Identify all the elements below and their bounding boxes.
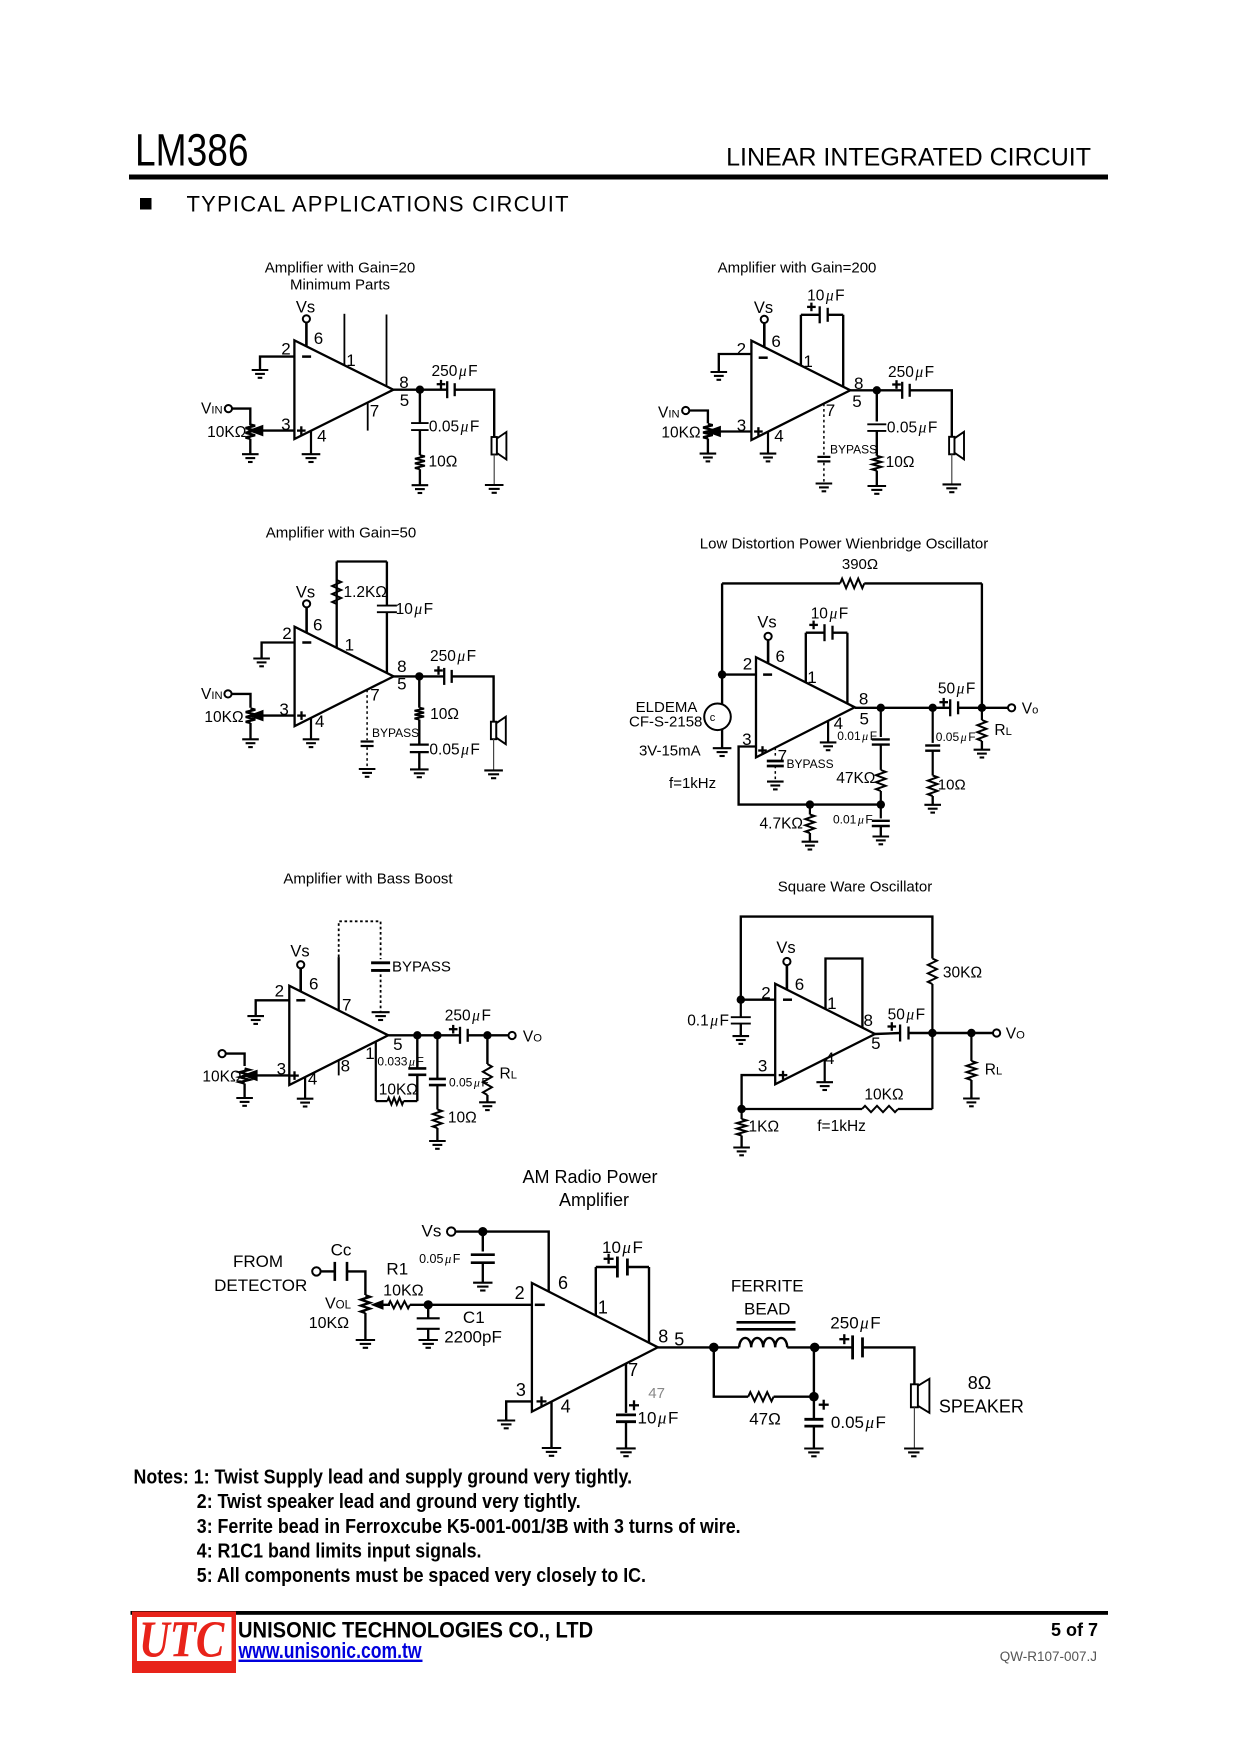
svg-text:Amplifier with Gain=50: Amplifier with Gain=50 <box>266 525 416 542</box>
op-amp U4 <box>756 657 855 757</box>
wire 0.01uF lower to ground <box>880 826 882 837</box>
svg-text:4: 4 <box>561 1397 571 1417</box>
svg-text:7: 7 <box>342 996 351 1015</box>
ground under 0.05uF <box>473 1282 492 1284</box>
svg-text:4: 4 <box>774 427 783 446</box>
capacitor 10uF gain <box>823 624 825 641</box>
wire input to potentiometer <box>226 1054 245 1066</box>
terminal Vs <box>765 633 772 640</box>
pin 1 to pin 8 wire loop <box>826 959 863 1028</box>
potentiometer 10K - zigzag <box>246 425 256 439</box>
op-amp U7 <box>532 1283 658 1412</box>
wire pin 2 to ground <box>262 643 295 659</box>
svg-text:3V-15mA: 3V-15mA <box>639 743 701 760</box>
capacitor 10uF gain <box>616 1257 619 1278</box>
svg-text:10KΩ: 10KΩ <box>207 424 246 441</box>
wire output pin 5 <box>393 389 447 391</box>
ferrite bead core bars <box>737 1321 796 1324</box>
capacitor 0.033uF <box>408 1067 426 1070</box>
ground under 10 ohm <box>412 484 429 486</box>
svg-text:RL: RL <box>994 722 1011 739</box>
pin 4 stub and ground <box>824 1059 826 1082</box>
capacitor 50uF plus sign <box>888 1025 897 1027</box>
wire arrow to R1 <box>381 1304 390 1306</box>
wire cap to resistor <box>419 430 421 455</box>
U2 plus input symbol <box>754 430 763 432</box>
svg-text:C1: C1 <box>463 1308 485 1327</box>
svg-text:1: 1 <box>345 636 354 655</box>
wire pin 8 down from gain cap <box>846 633 848 704</box>
wire 10 ohm to ground <box>436 1128 438 1141</box>
svg-text:250μF: 250μF <box>888 364 934 381</box>
wire output pin 5 <box>658 1346 739 1348</box>
wire Vs to pin 6 <box>763 323 766 347</box>
svg-text:2: 2 <box>737 340 746 359</box>
wire output pin 5 <box>875 1033 900 1034</box>
wire node A down to 0.01uF <box>880 708 882 737</box>
terminal VIN <box>224 690 231 697</box>
pin 7 stub <box>367 403 369 431</box>
wire pin 1 up to feedback network <box>336 580 338 648</box>
dotted bypass loop <box>339 921 381 959</box>
U6 plus input symbol <box>779 1074 788 1076</box>
ground under 10 ohm <box>924 804 941 806</box>
terminal VIN <box>682 407 689 414</box>
svg-text:10KΩ: 10KΩ <box>661 425 700 442</box>
U7 minus input symbol <box>535 1304 545 1307</box>
svg-text:5: 5 <box>871 1034 880 1053</box>
wire 50uF to Vo <box>909 1032 994 1034</box>
svg-text:10Ω: 10Ω <box>938 777 966 794</box>
svg-text:8: 8 <box>341 1057 350 1076</box>
svg-text:QW-R107-007.J: QW-R107-007.J <box>1000 1649 1097 1664</box>
capacitor 10uF feedback <box>377 605 397 607</box>
speaker SP3 <box>491 722 496 740</box>
capacitor 250uF plus sign <box>434 669 443 671</box>
wire 250uF to speaker <box>863 1347 915 1384</box>
junction output node <box>415 672 423 680</box>
svg-text:6: 6 <box>313 616 322 635</box>
svg-text:VOL: VOL <box>325 1296 352 1313</box>
wire pin 3 to bottom junction <box>742 1075 776 1109</box>
op-amp U2 <box>751 341 850 440</box>
svg-text:4: 4 <box>825 1049 834 1068</box>
ground under RL <box>479 1101 496 1103</box>
svg-text:Amplifier with Gain=20: Amplifier with Gain=20 <box>265 260 415 277</box>
input terminal <box>312 1267 320 1275</box>
junction at feedback return <box>978 704 986 712</box>
ground at pin 2 <box>252 369 269 371</box>
pin 4 stub and ground <box>310 718 312 739</box>
wire down to 0.05uF <box>436 1035 438 1078</box>
capacitor 10uF pin 7 <box>616 1414 636 1417</box>
UTC logo box <box>132 1612 236 1674</box>
header rule <box>129 175 1108 180</box>
svg-text:10Ω: 10Ω <box>430 706 459 723</box>
ground under 1K <box>733 1146 750 1148</box>
ground under 4.7K <box>802 841 819 843</box>
resistor 10 ohm <box>872 456 881 471</box>
svg-text:10KΩ: 10KΩ <box>204 709 243 726</box>
potentiometer VOL 10K <box>361 1295 370 1313</box>
junction output node <box>873 386 881 394</box>
wire pin 2 to ground <box>256 1000 290 1016</box>
svg-text:47KΩ: 47KΩ <box>836 770 875 787</box>
pin 4 stub and ground <box>767 432 769 454</box>
svg-text:10KΩ: 10KΩ <box>383 1283 423 1300</box>
wire 10uF to pin 8 <box>386 612 388 673</box>
svg-text:BYPASS: BYPASS <box>830 443 877 457</box>
svg-text:VIN: VIN <box>658 405 680 422</box>
wire 47K to bottom rail <box>880 791 882 805</box>
junction RL branch <box>967 1029 975 1037</box>
svg-text:3: 3 <box>277 1060 286 1079</box>
svg-text:BEAD: BEAD <box>744 1300 790 1319</box>
pin 4 stub and ground <box>310 431 312 454</box>
svg-text:1: 1 <box>598 1298 608 1318</box>
dotted wire bypass cap to ground <box>380 969 382 1012</box>
wire 0.033uF to output node <box>416 1035 418 1068</box>
capacitor 10uF gain plus sign <box>807 306 816 308</box>
capacitor 0.05uF <box>925 744 940 746</box>
gain cap top wires <box>806 632 825 634</box>
svg-text:c: c <box>710 712 716 724</box>
svg-text:FERRITE: FERRITE <box>731 1277 804 1296</box>
svg-text:0.01μF: 0.01μF <box>837 729 877 743</box>
svg-text:50μF: 50μF <box>888 1007 926 1024</box>
terminal VIN <box>225 405 232 412</box>
svg-text:Cc: Cc <box>331 1241 352 1260</box>
svg-text:5: 5 <box>400 391 409 410</box>
wire down to RL <box>486 1035 488 1064</box>
svg-text:f=1kHz: f=1kHz <box>669 775 716 792</box>
capacitor 0.01uF lower <box>880 805 882 819</box>
svg-text:f=1kHz: f=1kHz <box>817 1118 866 1135</box>
wire pin 1 up to gain cap <box>595 1267 597 1316</box>
svg-text:8: 8 <box>859 690 868 709</box>
wire pin 2 to ground <box>719 354 752 372</box>
svg-text:8: 8 <box>863 1011 872 1030</box>
capacitor C-out 250uF <box>901 382 903 399</box>
U4 minus input symbol <box>763 673 772 676</box>
svg-text:Amplifier with Bass Boost: Amplifier with Bass Boost <box>283 871 453 888</box>
junction output node <box>709 1343 719 1353</box>
junction bottom rail left <box>806 800 814 808</box>
ground under pot <box>700 453 717 455</box>
svg-text:Vs: Vs <box>754 299 773 317</box>
svg-text:250μF: 250μF <box>430 648 476 665</box>
U5 plus input symbol <box>290 1074 299 1076</box>
svg-text:8Ω: 8Ω <box>968 1373 991 1393</box>
U6 minus input symbol <box>783 998 792 1001</box>
svg-text:6: 6 <box>314 329 323 348</box>
pin 8 stub <box>386 315 388 387</box>
svg-text:LM386: LM386 <box>135 125 249 175</box>
capacitor C1 2200pF <box>417 1317 440 1319</box>
svg-text:1.2KΩ: 1.2KΩ <box>344 584 387 601</box>
wire Vs to pin 6 <box>455 1232 548 1292</box>
wire 30K down to output junction <box>931 984 933 1033</box>
ground at pin 2 <box>247 1015 264 1017</box>
U4 plus input symbol <box>758 749 767 751</box>
pot wiper arrow / wire to pin 3 <box>720 430 752 432</box>
wire pot to ground <box>243 1084 245 1099</box>
wire junction down to 10 ohm <box>418 676 420 707</box>
wire output pin 5 <box>850 389 902 391</box>
terminal Vs <box>761 316 768 323</box>
ground under pot <box>242 453 259 455</box>
pin 7 dashed bypass wire <box>774 748 776 759</box>
wire Vs to pin 6 <box>786 965 789 990</box>
resistor 47K ohm <box>876 770 886 791</box>
wire VIN to potentiometer <box>232 409 250 426</box>
resistor 10 ohm <box>928 776 938 797</box>
junction before 50uF <box>929 704 937 712</box>
svg-text:Vs: Vs <box>422 1222 442 1241</box>
wire Vs to pin 6 <box>767 640 770 664</box>
ground under RL <box>963 1097 980 1099</box>
wire 50uF to Vo <box>958 707 1008 709</box>
wire junction to pin 2 <box>722 673 756 675</box>
svg-text:FROM: FROM <box>233 1252 283 1271</box>
svg-text:250μF: 250μF <box>830 1314 880 1333</box>
ground at pin 2 <box>711 371 728 373</box>
terminal Vo <box>1008 704 1015 711</box>
op-amp U5 <box>289 986 388 1085</box>
svg-text:6: 6 <box>795 975 804 994</box>
svg-text:DETECTOR: DETECTOR <box>214 1276 307 1295</box>
pin 4 stub and ground <box>550 1402 552 1448</box>
potentiometer 10K - zigzag <box>246 709 256 724</box>
wire input to Cc <box>321 1270 335 1272</box>
capacitor 0.05uF <box>411 422 429 424</box>
capacitor 0.05uF <box>410 743 429 745</box>
svg-text:VIN: VIN <box>201 686 223 703</box>
svg-text:AM Radio Power: AM Radio Power <box>522 1167 657 1187</box>
svg-text:Amplifier with Gain=200: Amplifier with Gain=200 <box>718 260 877 277</box>
U7 plus input symbol <box>537 1400 547 1402</box>
svg-text:8: 8 <box>397 657 406 676</box>
ground under 0.05uF <box>804 1447 823 1449</box>
svg-text:10KΩ: 10KΩ <box>379 1082 418 1099</box>
wire 10uF to ground <box>625 1422 627 1449</box>
wire pin 2 to ground <box>260 357 294 370</box>
wire feedback right down <box>931 1033 933 1109</box>
svg-text:1: 1 <box>346 351 355 370</box>
wire Cc to pot <box>347 1271 365 1295</box>
junction bottom left <box>737 1105 745 1113</box>
U1 plus input symbol <box>297 429 306 431</box>
resistor 1.2K ohm <box>332 580 341 604</box>
svg-text:2: 2 <box>515 1283 525 1303</box>
wire junction down to 0.05uF <box>876 390 878 421</box>
svg-text:4: 4 <box>315 712 324 731</box>
capacitor 0.05uF output <box>804 1418 823 1421</box>
op-amp U1 <box>294 340 393 439</box>
resistor RL <box>483 1064 492 1095</box>
svg-text:0.05μF: 0.05μF <box>429 742 479 759</box>
wire Vs to pin 6 <box>305 322 308 346</box>
wire output pin 5 <box>388 1034 460 1036</box>
wire junction to 0.05uF <box>482 1232 484 1252</box>
svg-text:5: 5 <box>852 392 861 411</box>
wire pin 3 to ground <box>506 1401 532 1420</box>
capacitor 50uF plus sign <box>939 701 948 703</box>
svg-text:Amplifier: Amplifier <box>559 1190 629 1210</box>
resistor RL <box>967 1061 977 1080</box>
op-amp U3 <box>295 627 394 726</box>
svg-text:CF-S-2158: CF-S-2158 <box>629 714 702 731</box>
capacitor 250uF plus sign <box>449 1028 458 1030</box>
capacitor 0.1uF <box>740 1000 742 1018</box>
svg-text:5 of 7: 5 of 7 <box>1051 1620 1098 1640</box>
ferrite bead coil <box>739 1338 787 1347</box>
pin 7 dashed bypass wire <box>366 690 368 740</box>
svg-text:6: 6 <box>771 332 780 351</box>
capacitor 10uF pin 7 plus sign <box>629 1404 639 1406</box>
resistor RL <box>981 708 983 720</box>
bottom wire with 10K ohm <box>742 1108 862 1110</box>
junction C1 <box>424 1300 433 1309</box>
wire resistor to ground <box>419 469 421 485</box>
resistor 10 ohm <box>415 455 425 469</box>
resistor 10 ohm <box>415 708 425 720</box>
wire 10 ohm to ground <box>932 796 934 805</box>
wire output pin 5 <box>394 675 445 677</box>
svg-text:10μF: 10μF <box>807 288 845 305</box>
svg-text:UTC: UTC <box>139 1612 225 1669</box>
junction 47 ohm node <box>809 1392 819 1402</box>
dashed wire bypass cap to ground <box>774 766 776 782</box>
svg-text:SPEAKER: SPEAKER <box>939 1397 1024 1417</box>
potentiometer 10K - zigzag <box>240 1069 250 1084</box>
terminal Vs <box>447 1227 455 1235</box>
ground under pot <box>356 1339 375 1341</box>
pot wiper arrow / wire to pin 3 <box>256 1074 289 1076</box>
junction output node A <box>877 704 885 712</box>
ground under pot <box>242 738 259 740</box>
bypass capacitor plates <box>371 961 390 964</box>
wire VIN to potentiometer <box>689 411 708 424</box>
svg-text:250μF: 250μF <box>432 363 478 380</box>
wire cap to speaker <box>910 390 952 437</box>
wire 1K to ground <box>740 1136 742 1148</box>
wire junction down to lamp <box>721 675 723 749</box>
svg-text:7: 7 <box>826 401 835 420</box>
47 ohm bypass path <box>714 1347 748 1396</box>
resistor 1K ohm <box>740 1109 742 1119</box>
svg-text:7: 7 <box>370 402 379 421</box>
bypass capacitor plates <box>767 760 784 763</box>
U3 minus input symbol <box>302 641 311 644</box>
svg-text:0.01μF: 0.01μF <box>833 813 873 827</box>
wire RL to ground <box>486 1095 488 1102</box>
ground under speaker <box>904 1447 923 1449</box>
bypass capacitor plates <box>817 456 830 458</box>
pin 7 dashed bypass wire <box>823 404 825 456</box>
ground under C1 <box>419 1339 438 1341</box>
ground under bypass <box>359 768 376 770</box>
svg-text:5: All components must be spac: 5: All components must be spaced very cl… <box>197 1565 646 1587</box>
wire cap to speaker <box>452 676 494 721</box>
wire 0.1uF to ground <box>740 1024 742 1037</box>
wire RL to ground <box>970 1080 972 1099</box>
junction feedback <box>928 1029 936 1037</box>
svg-text:TYPICAL APPLICATIONS CIRCUIT: TYPICAL APPLICATIONS CIRCUIT <box>187 192 570 217</box>
dashed wire bypass cap to ground <box>366 747 368 769</box>
gain cap wires <box>596 1266 618 1268</box>
junction Vs decoupling <box>478 1227 487 1236</box>
svg-text:10Ω: 10Ω <box>448 1110 477 1127</box>
svg-text:RL: RL <box>500 1066 517 1083</box>
svg-text:5: 5 <box>859 710 868 729</box>
resistor 4.7K ohm <box>809 805 811 815</box>
wire pin 8 down from gain cap <box>648 1267 650 1343</box>
capacitor Cc <box>333 1262 336 1281</box>
speaker SP7 <box>911 1384 918 1407</box>
ground under lamp <box>713 747 732 749</box>
terminal Vo <box>508 1032 515 1039</box>
svg-text:0.1μF: 0.1μF <box>687 1013 729 1030</box>
svg-text:Notes: 1: Twist Supply lead an: Notes: 1: Twist Supply lead and supply g… <box>134 1466 633 1488</box>
svg-text:0.05μF: 0.05μF <box>429 419 479 436</box>
ground under pot <box>236 1097 253 1099</box>
svg-text:Minimum Parts: Minimum Parts <box>290 277 390 294</box>
wire junction down to bypass cap <box>419 390 421 424</box>
svg-text:250μF: 250μF <box>445 1008 491 1025</box>
svg-text:2: Twist speaker lead and grou: 2: Twist speaker lead and ground very ti… <box>197 1491 581 1513</box>
svg-text:2: 2 <box>761 984 770 1003</box>
resistor 10 ohm <box>433 1110 442 1129</box>
wire VIN to potentiometer <box>232 694 251 708</box>
svg-text:1KΩ: 1KΩ <box>749 1119 780 1136</box>
capacitor 250uF plus sign <box>839 1338 849 1340</box>
wire top to pin 2 junction <box>721 583 723 674</box>
wire pot to ground <box>249 723 251 739</box>
wire pin 1 up to gain cap <box>805 633 807 683</box>
svg-text:VO: VO <box>523 1029 542 1046</box>
svg-text:2: 2 <box>282 624 291 643</box>
junction RL branch <box>483 1031 491 1039</box>
wire resistor to ground <box>876 471 878 486</box>
svg-text:VIN: VIN <box>201 401 223 418</box>
svg-text:4: 4 <box>317 427 326 446</box>
wire junction down to 0.05uF <box>932 708 934 743</box>
capacitor 10uF gain plus sign <box>809 624 818 626</box>
svg-text:4.7KΩ: 4.7KΩ <box>760 816 803 833</box>
feedback top wire <box>741 917 933 1000</box>
svg-text:6: 6 <box>309 975 318 994</box>
U1 minus input symbol <box>302 355 311 358</box>
terminal Vs <box>297 961 304 968</box>
svg-text:10Ω: 10Ω <box>886 454 915 471</box>
svg-text:7: 7 <box>370 686 379 705</box>
svg-text:Vs: Vs <box>290 943 309 961</box>
svg-text:1: 1 <box>807 668 816 687</box>
svg-text:Vs: Vs <box>296 584 315 602</box>
wire pot to ground <box>249 439 251 454</box>
ground under cap <box>410 768 429 770</box>
wire R1 to pin 2 <box>410 1304 532 1306</box>
dashed wire bypass cap to ground <box>823 463 825 484</box>
ground under 10 ohm <box>868 485 887 487</box>
svg-text:1: 1 <box>365 1044 374 1063</box>
svg-text:0.05μF: 0.05μF <box>887 420 937 437</box>
wire bead to junction <box>787 1346 852 1348</box>
pin 4 stub and ground <box>827 721 829 743</box>
svg-text:47Ω: 47Ω <box>749 1410 781 1429</box>
svg-text:Vs: Vs <box>776 939 795 957</box>
